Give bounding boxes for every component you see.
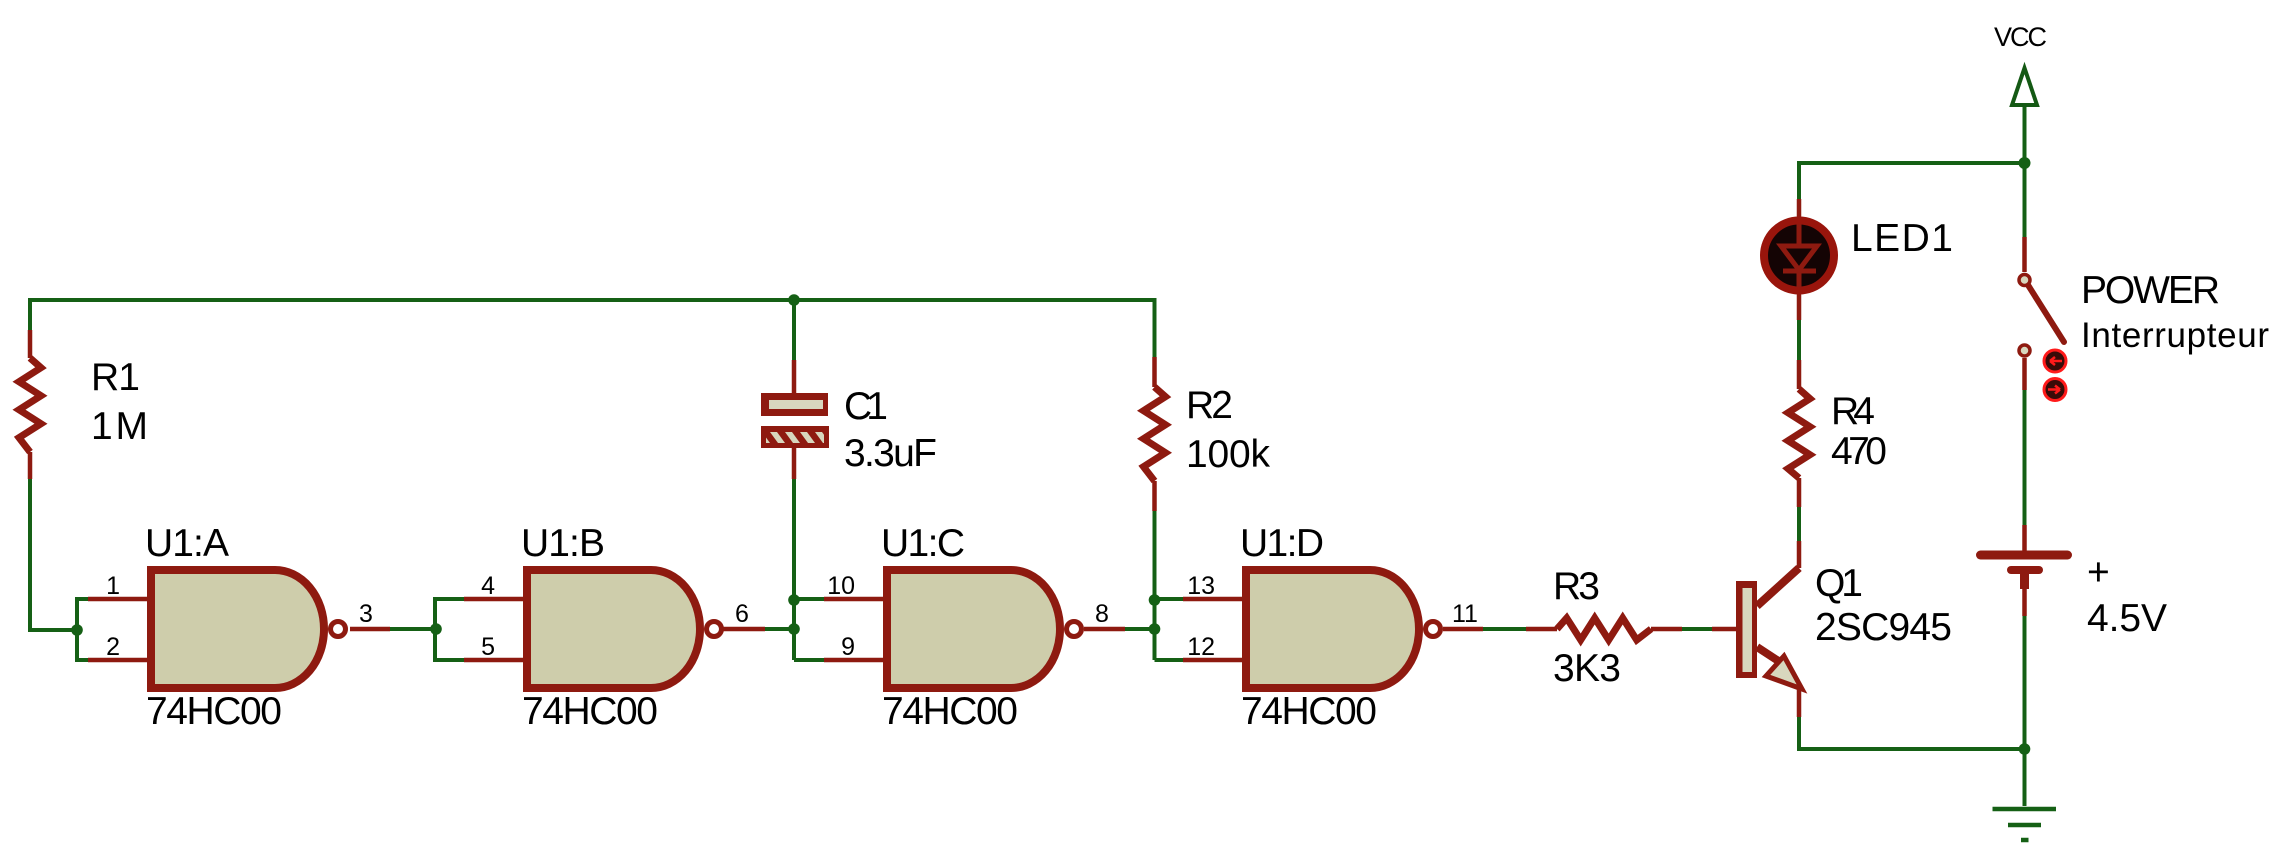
svg-text:3: 3	[359, 600, 373, 628]
svg-text:U1:A: U1:A	[145, 522, 229, 565]
svg-text:Q1: Q1	[1815, 562, 1863, 605]
svg-text:4: 4	[481, 572, 495, 600]
svg-text:11: 11	[1452, 600, 1478, 628]
svg-text:5: 5	[481, 633, 495, 661]
svg-text:U1:D: U1:D	[1240, 522, 1324, 565]
svg-text:R1: R1	[91, 356, 140, 399]
svg-text:74HC00: 74HC00	[522, 690, 658, 733]
svg-text:2: 2	[106, 633, 120, 661]
svg-text:1: 1	[106, 572, 120, 600]
svg-text:12: 12	[1187, 633, 1215, 661]
svg-text:Interrupteur: Interrupteur	[2081, 316, 2269, 355]
svg-text:POWER: POWER	[2081, 269, 2220, 312]
svg-text:2SC945: 2SC945	[1815, 606, 1952, 649]
svg-text:74HC00: 74HC00	[1241, 690, 1377, 733]
svg-text:9: 9	[841, 633, 855, 661]
svg-text:R2: R2	[1186, 384, 1233, 427]
svg-text:8: 8	[1095, 600, 1109, 628]
svg-text:470: 470	[1831, 430, 1887, 473]
svg-text:74HC00: 74HC00	[882, 690, 1018, 733]
svg-text:+: +	[2087, 551, 2110, 594]
svg-text:U1:C: U1:C	[881, 522, 965, 565]
svg-text:4.5V: 4.5V	[2087, 597, 2167, 640]
svg-text:100k: 100k	[1186, 433, 1271, 476]
svg-text:C1: C1	[844, 385, 888, 428]
svg-text:R3: R3	[1553, 565, 1600, 608]
svg-text:VCC: VCC	[1994, 22, 2047, 52]
svg-text:LED1: LED1	[1851, 217, 1953, 260]
svg-text:6: 6	[735, 600, 749, 628]
svg-text:74HC00: 74HC00	[146, 690, 282, 733]
svg-text:U1:B: U1:B	[521, 522, 605, 565]
svg-text:1M: 1M	[91, 405, 148, 448]
svg-text:13: 13	[1187, 572, 1215, 600]
svg-text:R4: R4	[1831, 390, 1875, 433]
svg-text:10: 10	[827, 572, 855, 600]
svg-text:3.3uF: 3.3uF	[844, 432, 937, 475]
svg-text:3K3: 3K3	[1553, 647, 1621, 690]
